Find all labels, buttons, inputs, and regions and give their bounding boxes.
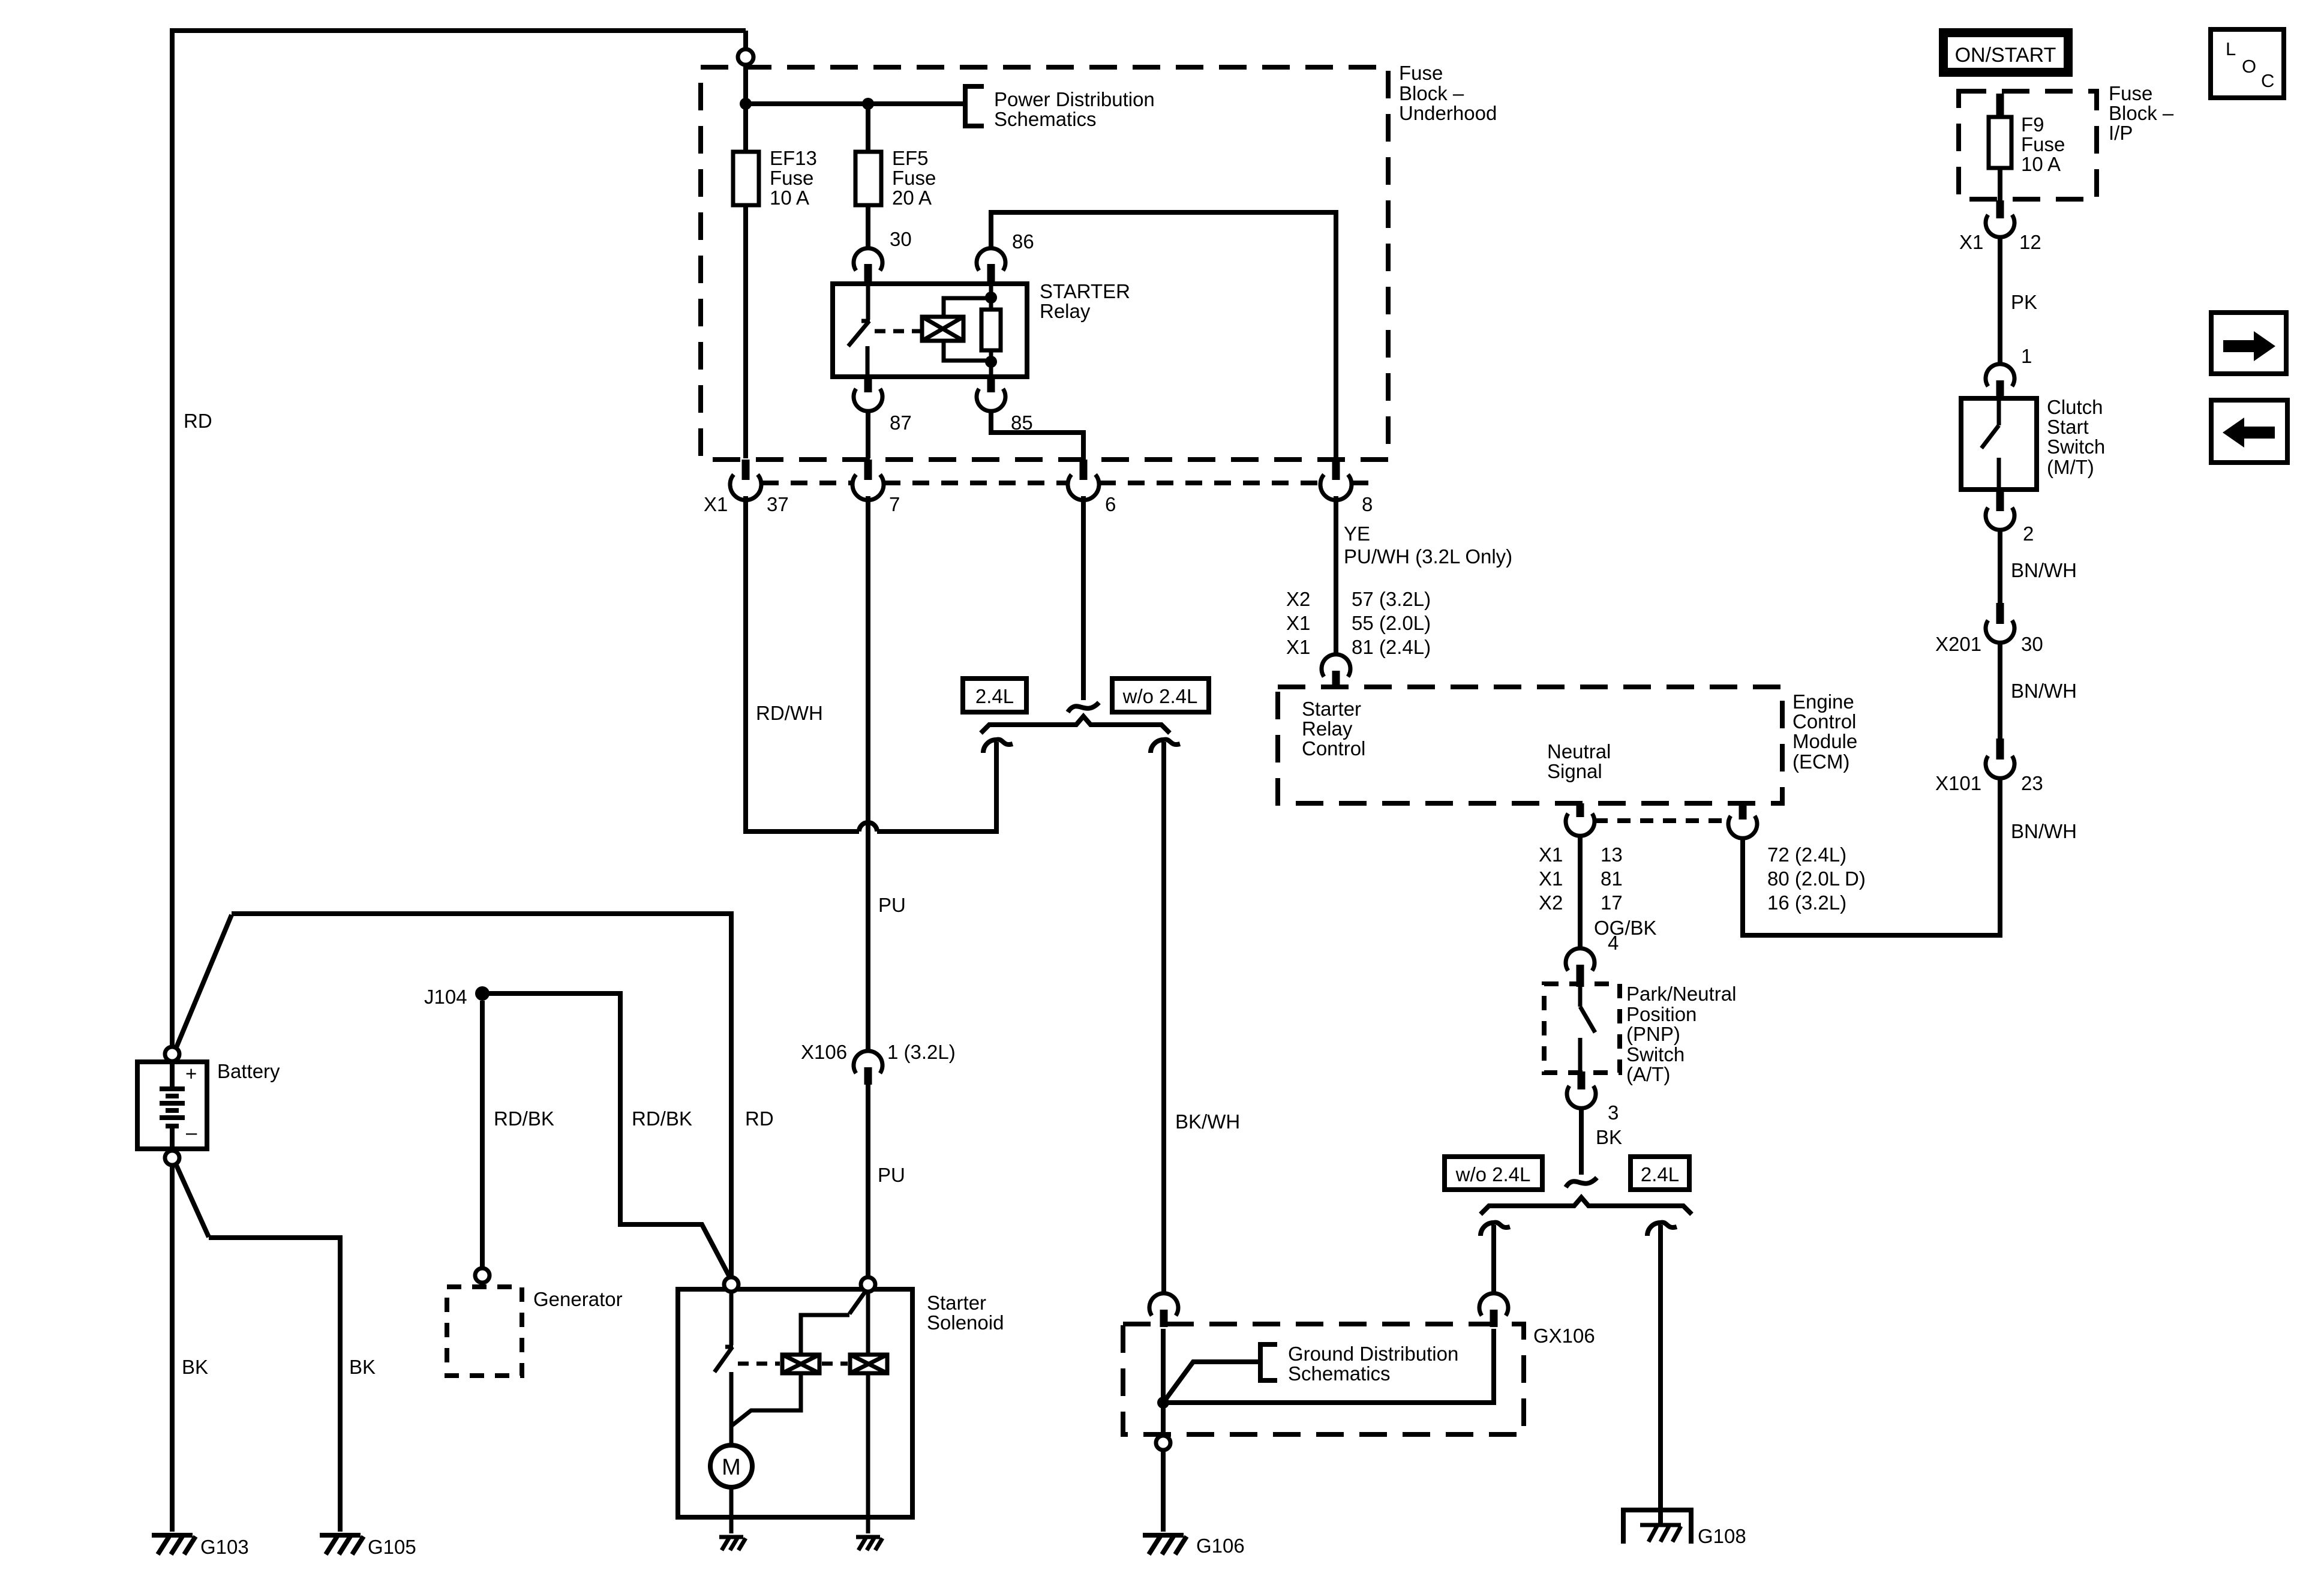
svg-text:BK: BK: [182, 1356, 208, 1378]
svg-text:YE: YE: [1344, 523, 1370, 545]
svg-text:13: 13: [1601, 843, 1623, 866]
svg-text:1 (3.2L): 1 (3.2L): [887, 1041, 956, 1063]
svg-text:Fuse: Fuse: [892, 167, 936, 189]
svg-text:+: +: [185, 1062, 197, 1085]
svg-text:w/o 2.4L: w/o 2.4L: [1122, 685, 1198, 707]
svg-text:12: 12: [2019, 231, 2041, 253]
svg-text:20 A: 20 A: [892, 187, 932, 209]
svg-text:w/o 2.4L: w/o 2.4L: [1455, 1163, 1531, 1185]
svg-text:3: 3: [1608, 1101, 1619, 1124]
svg-text:Ground Distribution: Ground Distribution: [1288, 1343, 1458, 1365]
svg-text:G103: G103: [200, 1536, 249, 1558]
svg-text:17: 17: [1601, 891, 1623, 914]
svg-text:Start: Start: [2047, 416, 2089, 438]
svg-text:Position: Position: [1626, 1003, 1697, 1025]
svg-text:86: 86: [1012, 230, 1034, 253]
svg-text:Relay: Relay: [1302, 718, 1353, 740]
svg-text:(A/T): (A/T): [1626, 1063, 1670, 1085]
svg-text:BN/WH: BN/WH: [2011, 559, 2077, 581]
svg-text:Clutch: Clutch: [2047, 396, 2103, 418]
svg-text:O: O: [2242, 56, 2256, 77]
svg-text:X201: X201: [1935, 633, 1981, 655]
svg-text:81: 81: [1601, 867, 1623, 890]
svg-text:PU: PU: [878, 1164, 905, 1186]
svg-text:G108: G108: [1698, 1525, 1746, 1547]
svg-text:55 (2.0L): 55 (2.0L): [1352, 612, 1431, 634]
svg-text:Power Distribution: Power Distribution: [994, 88, 1155, 110]
svg-text:Switch: Switch: [2047, 436, 2105, 458]
svg-text:X1: X1: [1539, 867, 1563, 890]
svg-text:RD/BK: RD/BK: [494, 1107, 554, 1130]
svg-text:PU/WH (3.2L Only): PU/WH (3.2L Only): [1344, 545, 1512, 568]
svg-text:X106: X106: [801, 1041, 847, 1063]
svg-text:Starter: Starter: [927, 1292, 986, 1314]
svg-text:X2: X2: [1286, 588, 1310, 610]
svg-text:BK/WH: BK/WH: [1175, 1110, 1240, 1133]
svg-text:PK: PK: [2011, 291, 2037, 313]
svg-text:23: 23: [2021, 772, 2043, 794]
svg-text:RD: RD: [745, 1107, 774, 1130]
svg-text:EF13: EF13: [770, 147, 817, 169]
svg-text:X1: X1: [1959, 231, 1983, 253]
svg-text:72 (2.4L): 72 (2.4L): [1767, 843, 1846, 866]
svg-text:30: 30: [2021, 633, 2043, 655]
svg-text:M: M: [722, 1455, 741, 1480]
svg-text:Relay: Relay: [1040, 300, 1091, 322]
svg-text:RD/WH: RD/WH: [756, 702, 823, 724]
svg-text:30: 30: [890, 228, 912, 250]
svg-text:GX106: GX106: [1533, 1325, 1595, 1347]
svg-text:F9: F9: [2021, 113, 2044, 136]
svg-text:2: 2: [2023, 523, 2034, 545]
svg-text:16 (3.2L): 16 (3.2L): [1767, 891, 1846, 914]
svg-text:Schematics: Schematics: [1288, 1362, 1391, 1385]
svg-text:X1: X1: [1286, 612, 1310, 634]
svg-text:(M/T): (M/T): [2047, 456, 2094, 478]
svg-text:Switch: Switch: [1626, 1043, 1685, 1065]
svg-text:G105: G105: [368, 1536, 416, 1558]
svg-text:Fuse: Fuse: [2109, 82, 2152, 104]
svg-text:Solenoid: Solenoid: [927, 1311, 1004, 1334]
svg-text:Schematics: Schematics: [994, 108, 1097, 130]
svg-text:Block –: Block –: [2109, 102, 2174, 124]
svg-text:Underhood: Underhood: [1399, 102, 1497, 124]
svg-text:Signal: Signal: [1547, 760, 1602, 782]
svg-text:X1: X1: [704, 493, 728, 515]
svg-text:2.4L: 2.4L: [1641, 1163, 1679, 1185]
svg-text:Block –: Block –: [1399, 82, 1464, 104]
svg-text:2.4L: 2.4L: [975, 685, 1014, 707]
svg-text:10 A: 10 A: [770, 187, 809, 209]
svg-text:STARTER: STARTER: [1040, 280, 1130, 302]
svg-text:X1: X1: [1539, 843, 1563, 866]
svg-text:80 (2.0L D): 80 (2.0L D): [1767, 867, 1866, 890]
svg-text:4: 4: [1608, 932, 1619, 954]
svg-text:10 A: 10 A: [2021, 153, 2061, 175]
svg-text:J104: J104: [424, 986, 467, 1008]
svg-text:57 (3.2L): 57 (3.2L): [1352, 588, 1431, 610]
svg-text:L: L: [2226, 38, 2236, 59]
svg-text:BN/WH: BN/WH: [2011, 680, 2077, 702]
svg-text:Fuse: Fuse: [1399, 62, 1443, 84]
svg-text:1: 1: [2021, 345, 2032, 367]
svg-text:G106: G106: [1196, 1535, 1245, 1557]
svg-text:8: 8: [1362, 493, 1373, 515]
svg-text:Control: Control: [1792, 710, 1856, 733]
svg-text:Control: Control: [1302, 737, 1365, 760]
svg-text:Fuse: Fuse: [2021, 133, 2065, 155]
svg-text:X2: X2: [1539, 891, 1563, 914]
svg-text:OG/BK: OG/BK: [1594, 917, 1657, 939]
svg-text:ON/START: ON/START: [1955, 44, 2056, 67]
svg-text:X1: X1: [1286, 636, 1310, 658]
svg-text:BK: BK: [349, 1356, 376, 1378]
svg-text:EF5: EF5: [892, 147, 929, 169]
svg-text:C: C: [2261, 70, 2274, 91]
svg-text:7: 7: [889, 493, 900, 515]
svg-text:37: 37: [767, 493, 789, 515]
svg-text:X101: X101: [1935, 772, 1981, 794]
svg-text:Starter: Starter: [1302, 698, 1361, 720]
svg-text:(ECM): (ECM): [1792, 751, 1849, 773]
svg-text:–: –: [186, 1121, 197, 1143]
svg-text:BN/WH: BN/WH: [2011, 820, 2077, 842]
svg-text:I/P: I/P: [2109, 122, 2133, 144]
svg-text:Battery: Battery: [217, 1060, 280, 1082]
svg-text:BK: BK: [1596, 1126, 1622, 1148]
svg-text:(PNP): (PNP): [1626, 1023, 1680, 1045]
svg-text:Park/Neutral: Park/Neutral: [1626, 983, 1736, 1005]
svg-text:Neutral: Neutral: [1547, 740, 1611, 763]
svg-text:Module: Module: [1792, 730, 1857, 752]
svg-text:87: 87: [890, 412, 912, 434]
svg-text:Fuse: Fuse: [770, 167, 813, 189]
svg-text:RD/BK: RD/BK: [632, 1107, 692, 1130]
svg-text:RD: RD: [184, 410, 212, 432]
svg-text:6: 6: [1105, 493, 1116, 515]
svg-text:81 (2.4L): 81 (2.4L): [1352, 636, 1431, 658]
svg-text:Generator: Generator: [533, 1288, 623, 1310]
svg-text:Engine: Engine: [1792, 691, 1854, 713]
svg-text:PU: PU: [878, 894, 906, 916]
